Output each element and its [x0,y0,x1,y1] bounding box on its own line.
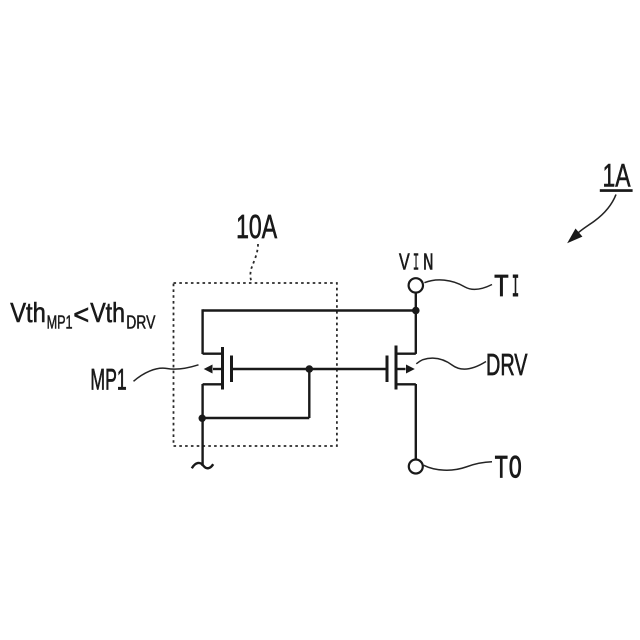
leader from VIN terminal to TI [424,280,492,289]
wire top rail from MP1 drain to VIN node [203,309,416,311]
terminal circle TO [409,460,423,474]
wire DRV source vertical to TO [415,384,417,459]
leader from TO terminal to TO label [424,462,493,470]
label 10A [236,209,277,246]
svg-text:MP1: MP1 [90,364,126,397]
label TO [494,450,522,487]
dashed leader from 10A label to box [250,244,258,282]
node junction MP1 source [199,415,206,422]
label 1A [600,157,633,193]
label DRV [486,349,528,382]
wire VIN vertical [415,293,417,354]
node junction VIN rail [412,307,420,315]
svg-text:Vth: Vth [10,297,46,328]
svg-text:10A: 10A [236,209,277,246]
svg-text:1A: 1A [603,157,631,193]
svg-text:I: I [413,251,419,278]
wire gate rail from MP1 gate to DRV gate [232,368,388,370]
svg-text:Vth: Vth [90,297,125,328]
transistor MP1 [203,347,232,390]
wire MP1 drain vertical [201,309,203,354]
leader from DRV gate area to DRV label [416,358,486,369]
svg-text:I: I [512,271,520,306]
terminal circle TI (VIN) [409,278,423,292]
svg-text:MP1: MP1 [47,311,73,332]
arrow leader from 1A to circuit [568,195,616,243]
svg-text:<: < [73,299,89,330]
svg-text:DRV: DRV [486,349,528,382]
svg-text:DRV: DRV [126,311,156,332]
label VIN [399,251,434,278]
label TI [494,271,519,306]
svg-text:T: T [494,450,508,487]
ground [192,463,213,468]
transistor DRV [387,346,416,390]
wire feedback vertical from gate node [308,369,310,418]
wire feedback horizontal to source node [203,417,310,419]
svg-text:T: T [494,271,509,306]
svg-text:N: N [423,251,434,278]
svg-text:V: V [399,251,410,278]
node junction gate rail [306,365,314,373]
label MP1 [90,364,126,397]
text Vth_MP1 < Vth_DRV [10,297,156,332]
svg-text:O: O [509,450,522,487]
wire MP1 source vertical down to ground [201,384,203,466]
leader from MP1 label to transistor [134,365,199,382]
dashed box 10A [174,283,337,446]
